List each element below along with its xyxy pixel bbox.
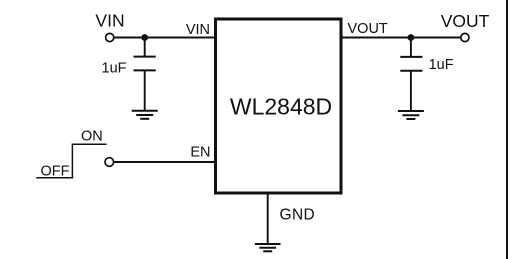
- ground (C2): [398, 111, 424, 119]
- wire junction to C2 top: [410, 38, 412, 57]
- ground (GND pin): [255, 244, 281, 251]
- wire EN terminal to IC EN pin: [114, 161, 216, 163]
- node VIN terminal: [106, 33, 114, 41]
- svg-text:VIN: VIN: [186, 22, 210, 38]
- wire right page border segment: [506, 0, 508, 259]
- svg-text:1uF: 1uF: [102, 60, 127, 76]
- switch ON/OFF control waveform: [36, 144, 106, 178]
- node EN terminal: [105, 158, 114, 167]
- wire C1 bottom to ground: [144, 70, 146, 110]
- wire C2 bottom to ground: [410, 71, 412, 111]
- svg-text:WL2848D: WL2848D: [230, 93, 332, 119]
- svg-text:OFF: OFF: [41, 164, 70, 180]
- svg-text:EN: EN: [190, 145, 210, 161]
- junction VOUT/C2: [408, 34, 415, 41]
- wire junction to C1 top: [144, 38, 146, 57]
- node VOUT terminal: [461, 33, 469, 41]
- svg-text:ON: ON: [81, 129, 103, 145]
- junction VIN/C1: [141, 34, 148, 41]
- wire VIN terminal to IC VIN pin: [114, 37, 216, 39]
- svg-text:VIN: VIN: [95, 11, 124, 31]
- svg-text:VOUT: VOUT: [348, 21, 388, 37]
- ground (C1): [132, 111, 158, 119]
- wire IC VOUT pin to VOUT terminal: [341, 37, 461, 39]
- svg-text:GND: GND: [280, 207, 316, 224]
- svg-text:VOUT: VOUT: [441, 11, 490, 31]
- capacitor C1 1uF: [134, 57, 156, 71]
- capacitor C2 1uF: [400, 57, 422, 71]
- wire IC GND pin to ground: [267, 193, 269, 244]
- svg-text:1uF: 1uF: [429, 57, 454, 73]
- op-amp U1 : regulator IC body WL2848D: [216, 19, 342, 193]
